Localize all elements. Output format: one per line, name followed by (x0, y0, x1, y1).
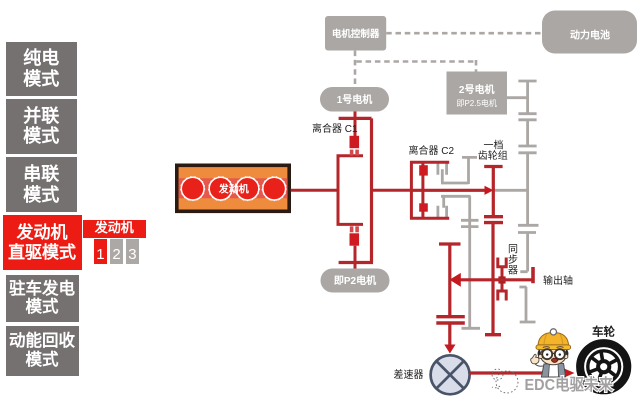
svg-text:同: 同 (508, 244, 518, 256)
engine block (177, 165, 289, 211)
countershaft upper bracket (441, 157, 477, 184)
clutch C1 upper pack (350, 136, 360, 156)
mode button: parallel (6, 99, 78, 154)
right shaft long section (518, 153, 539, 226)
svg-text:EDC电驱未来: EDC电驱未来 (525, 375, 614, 394)
clutch C1 bottom bar (339, 261, 373, 264)
P2 motor stadium (321, 269, 390, 293)
mode button: series (6, 157, 78, 212)
clutch C1 outer vertical (370, 118, 373, 262)
wire to differential with arrow (444, 323, 455, 354)
svg-text:一档: 一档 (484, 138, 504, 151)
engine piston 3 (235, 177, 259, 201)
right shaft bottom section (519, 287, 535, 322)
svg-text:电机控制器: 电机控制器 (332, 28, 380, 40)
engine cylinder count 3 (126, 239, 139, 264)
synchronizer lower fork (496, 283, 507, 301)
countershaft lower teeth (438, 206, 447, 217)
clutch C1 top bar (339, 117, 372, 120)
differential (431, 355, 470, 394)
engine cylinder count 2 (110, 239, 123, 264)
wire engine to clutch C1 (291, 189, 337, 192)
svg-text:步: 步 (508, 254, 518, 266)
svg-text:离合器 C2: 离合器 C2 (409, 144, 455, 157)
first gear mesh bars (484, 217, 503, 223)
mode button: pure electric (6, 42, 78, 96)
right shaft lower section (518, 233, 536, 272)
power battery box (542, 11, 637, 54)
countershaft vertical (461, 196, 480, 328)
gray main line segment (494, 189, 528, 192)
motor 1 stadium (320, 87, 389, 112)
motor controller box (325, 16, 386, 51)
gear shaft bottom bar (485, 333, 501, 336)
svg-text:齿轮组: 齿轮组 (478, 149, 508, 162)
clutch C2 upper pack (419, 165, 428, 175)
svg-text:发动机: 发动机 (218, 182, 249, 195)
engine cylinder count 1 (94, 239, 107, 264)
output shaft end bar (531, 267, 535, 283)
clutch C2 frame (410, 161, 449, 220)
svg-text:离合器 C1: 离合器 C1 (312, 122, 358, 135)
wire C1 to C2 (373, 189, 411, 192)
dashed wire branch to motor2 (356, 60, 476, 72)
first gear set upper gear (484, 167, 502, 217)
clutch C1 lower pack (350, 226, 360, 245)
wire C1 pack to bottom bar and P2 motor (354, 246, 357, 269)
left countershaft gear bar (439, 244, 461, 317)
clutch C1 drum rectangle (338, 156, 363, 225)
wire differential to wheel (470, 371, 566, 374)
synchronizer hub (498, 276, 505, 283)
mascot engineer (531, 329, 571, 377)
svg-text:即P2.5电机: 即P2.5电机 (456, 98, 496, 108)
engine piston 4 (262, 177, 286, 201)
countershaft lower bracket (441, 196, 471, 208)
wheel (580, 343, 627, 390)
svg-text:器: 器 (508, 265, 518, 277)
svg-text:1号电机: 1号电机 (337, 93, 373, 106)
output shaft line with left arrow (450, 273, 532, 287)
svg-text:差速器: 差速器 (394, 368, 424, 381)
mode button: engine direct drive (active, red) (3, 215, 82, 270)
first gear shaft lower (491, 223, 494, 335)
svg-text:2号电机: 2号电机 (459, 83, 495, 96)
motor 2 box (447, 72, 508, 115)
dashed wire controller to battery (386, 32, 542, 35)
countershaft mesh bars (436, 317, 465, 323)
countershaft upper teeth (438, 163, 447, 175)
wire motor1 to C1 (354, 112, 357, 137)
EDC watermark logo sketch (492, 369, 518, 393)
engine piston 2 (209, 177, 233, 201)
engine tag label (83, 220, 147, 238)
engine piston 1 (181, 177, 205, 201)
wire motor2 to right shaft (507, 96, 527, 99)
clutch C2 lower pack (419, 203, 428, 211)
mode button: parking generation (6, 275, 79, 323)
svg-text:即P2电机: 即P2电机 (334, 274, 376, 287)
main power line with arrow (411, 186, 493, 195)
dashed wire controller to motor1 (354, 51, 357, 87)
svg-text:车轮: 车轮 (592, 324, 615, 338)
svg-text:输出轴: 输出轴 (543, 274, 573, 287)
synchronizer upper fork (496, 258, 507, 278)
svg-text:动力电池: 动力电池 (570, 29, 610, 42)
mode button: energy recovery (6, 326, 79, 376)
right shaft gear pair upper (518, 81, 536, 114)
right shaft gear pair second (518, 120, 536, 146)
